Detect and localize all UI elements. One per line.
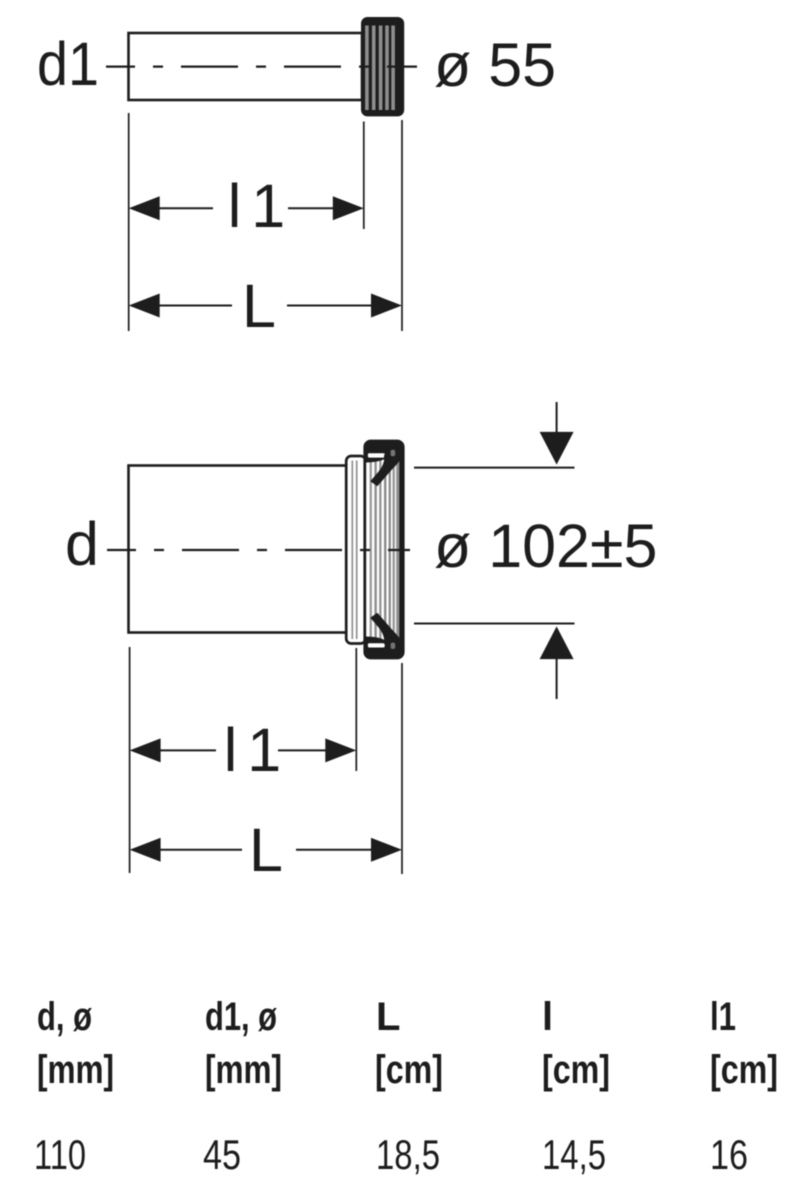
svg-text:[mm]: [mm] — [205, 1048, 282, 1092]
extension line L right (top fig) — [401, 120, 403, 331]
svg-text:l1: l1 — [710, 995, 736, 1039]
extension line L right (mid fig) — [401, 663, 403, 874]
svg-text:45: 45 — [203, 1131, 241, 1178]
svg-text:l1: l1 — [228, 172, 295, 240]
svg-text:d1: d1 — [37, 30, 99, 98]
svg-text:[mm]: [mm] — [37, 1048, 114, 1092]
threaded end block — [361, 17, 404, 116]
top vertical arrow — [540, 402, 574, 465]
bottom seal lip — [370, 613, 399, 644]
seal collar block — [365, 441, 403, 658]
dimension L (mid fig) — [130, 816, 402, 884]
svg-text:l: l — [542, 995, 553, 1039]
svg-text:L: L — [249, 816, 283, 884]
svg-text:ø 55: ø 55 — [434, 31, 556, 99]
svg-text:[cm]: [cm] — [542, 1048, 610, 1092]
dimension table — [37, 995, 778, 1092]
top clip body — [366, 448, 403, 463]
collar right wall — [399, 443, 402, 657]
extension line l1 right (top fig) — [363, 122, 365, 230]
tube d1 body — [129, 33, 363, 100]
gray column next to right wall — [396, 461, 399, 639]
svg-text:14,5: 14,5 — [542, 1131, 606, 1178]
center line top — [106, 65, 417, 67]
svg-text:[cm]: [cm] — [710, 1048, 778, 1092]
svg-text:[cm]: [cm] — [375, 1048, 443, 1092]
collar bottom cap — [365, 646, 403, 658]
top seal lip — [370, 455, 399, 486]
svg-text:l1: l1 — [224, 716, 291, 784]
extension line left (mid fig) — [129, 647, 131, 873]
center line middle — [107, 549, 410, 551]
extension line l1 right (mid fig) — [355, 648, 357, 771]
top slot — [368, 453, 385, 457]
lower pointer line — [414, 623, 575, 625]
bottom slot — [368, 643, 385, 647]
svg-text:16: 16 — [710, 1131, 748, 1178]
svg-text:d, ø: d, ø — [37, 995, 92, 1039]
svg-text:110: 110 — [34, 1131, 86, 1178]
svg-text:d1, ø: d1, ø — [205, 995, 277, 1039]
extension line left (top fig) — [128, 113, 130, 331]
svg-text:d: d — [65, 510, 99, 578]
flange ring — [346, 456, 365, 644]
collar top cap — [365, 441, 403, 453]
tube d body — [129, 466, 348, 633]
top curl notch — [391, 450, 396, 456]
upper pointer line — [414, 467, 575, 469]
bottom clip body — [366, 637, 403, 652]
dimension l1 (mid fig) — [130, 716, 357, 784]
bottom curl notch — [391, 643, 396, 649]
dimension l1 (top fig) — [129, 172, 364, 240]
svg-text:ø 102±5: ø 102±5 — [434, 512, 657, 580]
svg-text:L: L — [376, 995, 400, 1039]
bottom vertical arrow — [540, 626, 574, 699]
svg-text:L: L — [242, 272, 276, 340]
svg-text:18,5: 18,5 — [376, 1131, 440, 1178]
dimension L (top fig) — [129, 272, 402, 340]
